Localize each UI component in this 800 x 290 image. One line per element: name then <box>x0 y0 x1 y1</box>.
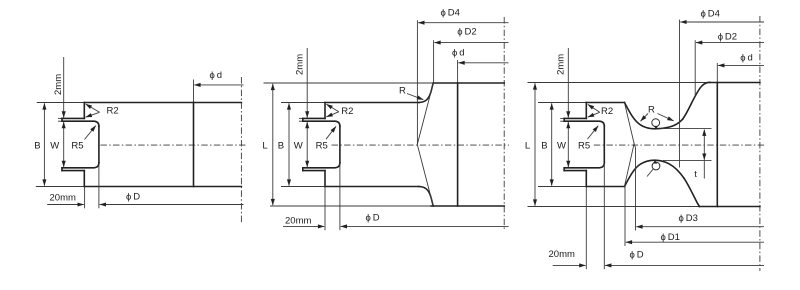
rim face bottom <box>303 170 325 172</box>
left end face segments <box>302 118 304 170</box>
svg-text:20mm: 20mm <box>285 216 311 227</box>
horizontal centerline <box>100 144 247 146</box>
groove top extension <box>58 120 62 122</box>
svg-text:ϕ d: ϕ d <box>452 48 465 59</box>
groove top surface with R5 fillet <box>564 121 604 126</box>
svg-text:ϕ D1: ϕ D1 <box>661 232 680 243</box>
left end face bottom <box>61 168 63 171</box>
dimension phi-d horizontal <box>194 84 243 86</box>
step shoulder top <box>585 103 587 119</box>
svg-text:20mm: 20mm <box>50 193 76 204</box>
svg-text:R5: R5 <box>316 141 328 152</box>
dimension t extension upper <box>661 128 712 130</box>
dimension phi-d <box>458 62 508 64</box>
dimension phi-D4 <box>418 22 508 24</box>
svg-text:R5: R5 <box>578 141 590 152</box>
svg-text:ϕ D4: ϕ D4 <box>441 8 460 19</box>
groove bottom surface with R5 fillet <box>62 163 99 168</box>
extension line step <box>84 187 86 209</box>
extension line groove bottom (phi-D) <box>603 163 605 269</box>
dimension 2mm leader <box>306 48 308 118</box>
outer top face <box>710 82 760 84</box>
dimension t extension lower <box>663 159 712 161</box>
R2 leader arrows <box>326 104 338 112</box>
dimension B vertical <box>43 103 45 185</box>
svg-text:B: B <box>541 141 547 152</box>
dimension phi-D2 <box>696 42 764 44</box>
funnel upper transition R <box>419 83 433 103</box>
groove top extension <box>560 120 564 122</box>
R label leaders <box>641 114 649 122</box>
dimension 2mm leader <box>567 48 569 118</box>
B top face extension <box>281 102 325 104</box>
lower descent to bottom face <box>684 178 699 206</box>
rim face top extension <box>299 117 303 119</box>
bore line phi-d <box>716 83 718 207</box>
left end face top <box>61 118 63 121</box>
dimension 20mm <box>553 264 586 266</box>
B top face extension <box>538 102 586 104</box>
cone line upper <box>417 83 433 144</box>
extension line step <box>324 187 326 231</box>
bore line extension <box>716 63 718 83</box>
svg-text:ϕ D: ϕ D <box>366 213 380 224</box>
dimension L vertical <box>272 84 274 205</box>
top face extension line <box>37 102 85 104</box>
outer top face <box>433 82 504 84</box>
svg-text:R: R <box>399 86 406 97</box>
svg-text:ϕ d: ϕ d <box>210 70 223 81</box>
extension line phi-D1 <box>624 187 626 246</box>
R leader <box>407 94 423 100</box>
step shoulder bottom <box>83 171 85 187</box>
dimension phi-D4 <box>680 21 764 23</box>
B bottom face <box>325 186 419 188</box>
svg-text:W: W <box>294 141 303 152</box>
bore line phi-d <box>193 103 195 187</box>
R2 leader arrows <box>588 104 600 112</box>
balloon circle lower <box>652 162 660 170</box>
dimension phi-D2 <box>434 42 508 44</box>
svg-text:R2: R2 <box>107 106 119 117</box>
dimension B vertical <box>551 103 553 185</box>
axis centerline vertical <box>503 17 505 231</box>
svg-text:R2: R2 <box>341 106 353 117</box>
B top face <box>586 102 624 104</box>
top face <box>84 102 241 104</box>
svg-text:B: B <box>278 141 284 152</box>
svg-text:ϕ D: ϕ D <box>630 250 644 261</box>
svg-text:L: L <box>525 141 530 152</box>
rim face bottom <box>564 170 586 172</box>
diagonal cone line a <box>625 103 635 147</box>
svg-text:t: t <box>694 169 697 180</box>
bore line phi-d <box>457 83 459 206</box>
svg-text:R: R <box>648 105 655 116</box>
svg-text:R5: R5 <box>71 141 83 152</box>
rim face top <box>62 117 84 119</box>
rim face top <box>564 117 586 119</box>
extension line phi-D3 <box>635 147 637 231</box>
outer top face extension (L) <box>264 82 434 84</box>
groove bottom surface with R5 fillet <box>303 163 340 168</box>
outer bottom face <box>699 206 760 208</box>
svg-text:ϕ D4: ϕ D4 <box>701 9 720 20</box>
groove end cylinder <box>603 126 605 163</box>
axis centerline vertical <box>240 77 242 224</box>
svg-text:2mm: 2mm <box>556 54 567 75</box>
extension phi-D2 <box>433 40 435 83</box>
dimension 20mm <box>283 225 324 227</box>
lower valley curve with R <box>625 160 685 186</box>
R5 leader <box>85 126 96 140</box>
svg-text:ϕ D2: ϕ D2 <box>457 27 476 38</box>
step shoulder bottom <box>585 171 587 187</box>
svg-text:W: W <box>50 141 59 152</box>
svg-text:W: W <box>557 141 566 152</box>
rim face bottom <box>62 170 84 172</box>
extension line groove bottom <box>98 163 100 209</box>
outer bottom face <box>431 205 504 207</box>
diagonal cone line b <box>625 143 635 186</box>
dimension 2mm leader <box>63 57 65 118</box>
groove bottom surface with R5 fillet <box>564 163 604 168</box>
extension phi-D4 <box>679 20 681 168</box>
horizontal centerline <box>594 144 765 146</box>
dimension phi-d <box>718 64 764 66</box>
R5 leader <box>588 126 599 139</box>
extension phi-D2 <box>694 40 696 96</box>
svg-text:20mm: 20mm <box>549 249 575 260</box>
upper rise to top face <box>683 82 710 119</box>
svg-text:B: B <box>34 141 40 152</box>
svg-text:ϕ D: ϕ D <box>126 192 140 203</box>
step shoulder top <box>324 103 326 119</box>
bottom face <box>84 186 241 188</box>
B bottom face extension <box>281 186 325 188</box>
outer bottom face extension (L) <box>270 205 431 207</box>
groove end cylinder <box>98 126 100 163</box>
funnel lower transition R <box>419 187 433 207</box>
R2 leader arrows <box>86 104 100 112</box>
left end face segments <box>563 118 565 170</box>
dimension W vertical <box>306 122 308 167</box>
dimension B vertical <box>288 103 290 185</box>
horizontal centerline <box>332 144 510 146</box>
axis centerline vertical <box>759 16 761 271</box>
B bottom face <box>586 186 624 188</box>
B bottom face extension <box>538 186 586 188</box>
B top face <box>325 102 419 104</box>
upper valley curve with R <box>625 103 683 129</box>
svg-text:2mm: 2mm <box>53 74 64 95</box>
dimension phi-D <box>341 225 509 227</box>
dimension W vertical <box>63 122 65 167</box>
svg-text:R2: R2 <box>601 106 613 117</box>
dimension W vertical <box>567 122 569 167</box>
groove end cylinder <box>339 126 341 163</box>
bottom face extension line <box>36 186 85 188</box>
groove top surface with R5 fillet <box>62 121 99 126</box>
rim face top extension <box>58 117 62 119</box>
dimension phi-D <box>605 264 764 266</box>
dimension phi-D horizontal <box>100 204 244 206</box>
groove top extension <box>299 120 303 122</box>
dimension t vertical <box>703 130 705 160</box>
balloon circle upper <box>652 119 660 127</box>
dimension phi-D3 <box>636 226 764 228</box>
step shoulder top <box>83 103 85 119</box>
bore line extension <box>457 60 459 83</box>
extension line groove bottom <box>339 163 341 230</box>
svg-text:L: L <box>262 141 267 152</box>
outer top face extension (L) <box>528 82 710 84</box>
extension line step (20mm) <box>585 187 587 270</box>
R5 leader <box>326 126 336 139</box>
dimension L vertical <box>534 83 536 205</box>
svg-text:ϕ D2: ϕ D2 <box>718 32 737 43</box>
rim face top <box>303 117 325 119</box>
bore line extension <box>193 80 195 103</box>
step shoulder bottom <box>324 171 326 187</box>
outer bottom face extension (L) <box>528 206 700 208</box>
cone line lower <box>417 145 433 206</box>
rim face top extension <box>560 117 564 119</box>
dimension 20mm horizontal <box>47 204 84 206</box>
svg-text:ϕ d: ϕ d <box>740 53 753 64</box>
extension phi-D4 to apex <box>416 20 418 144</box>
svg-text:ϕ D3: ϕ D3 <box>679 213 698 224</box>
dimension phi-D1 <box>626 241 764 243</box>
svg-text:2mm: 2mm <box>295 54 306 75</box>
groove top surface with R5 fillet <box>303 121 340 126</box>
